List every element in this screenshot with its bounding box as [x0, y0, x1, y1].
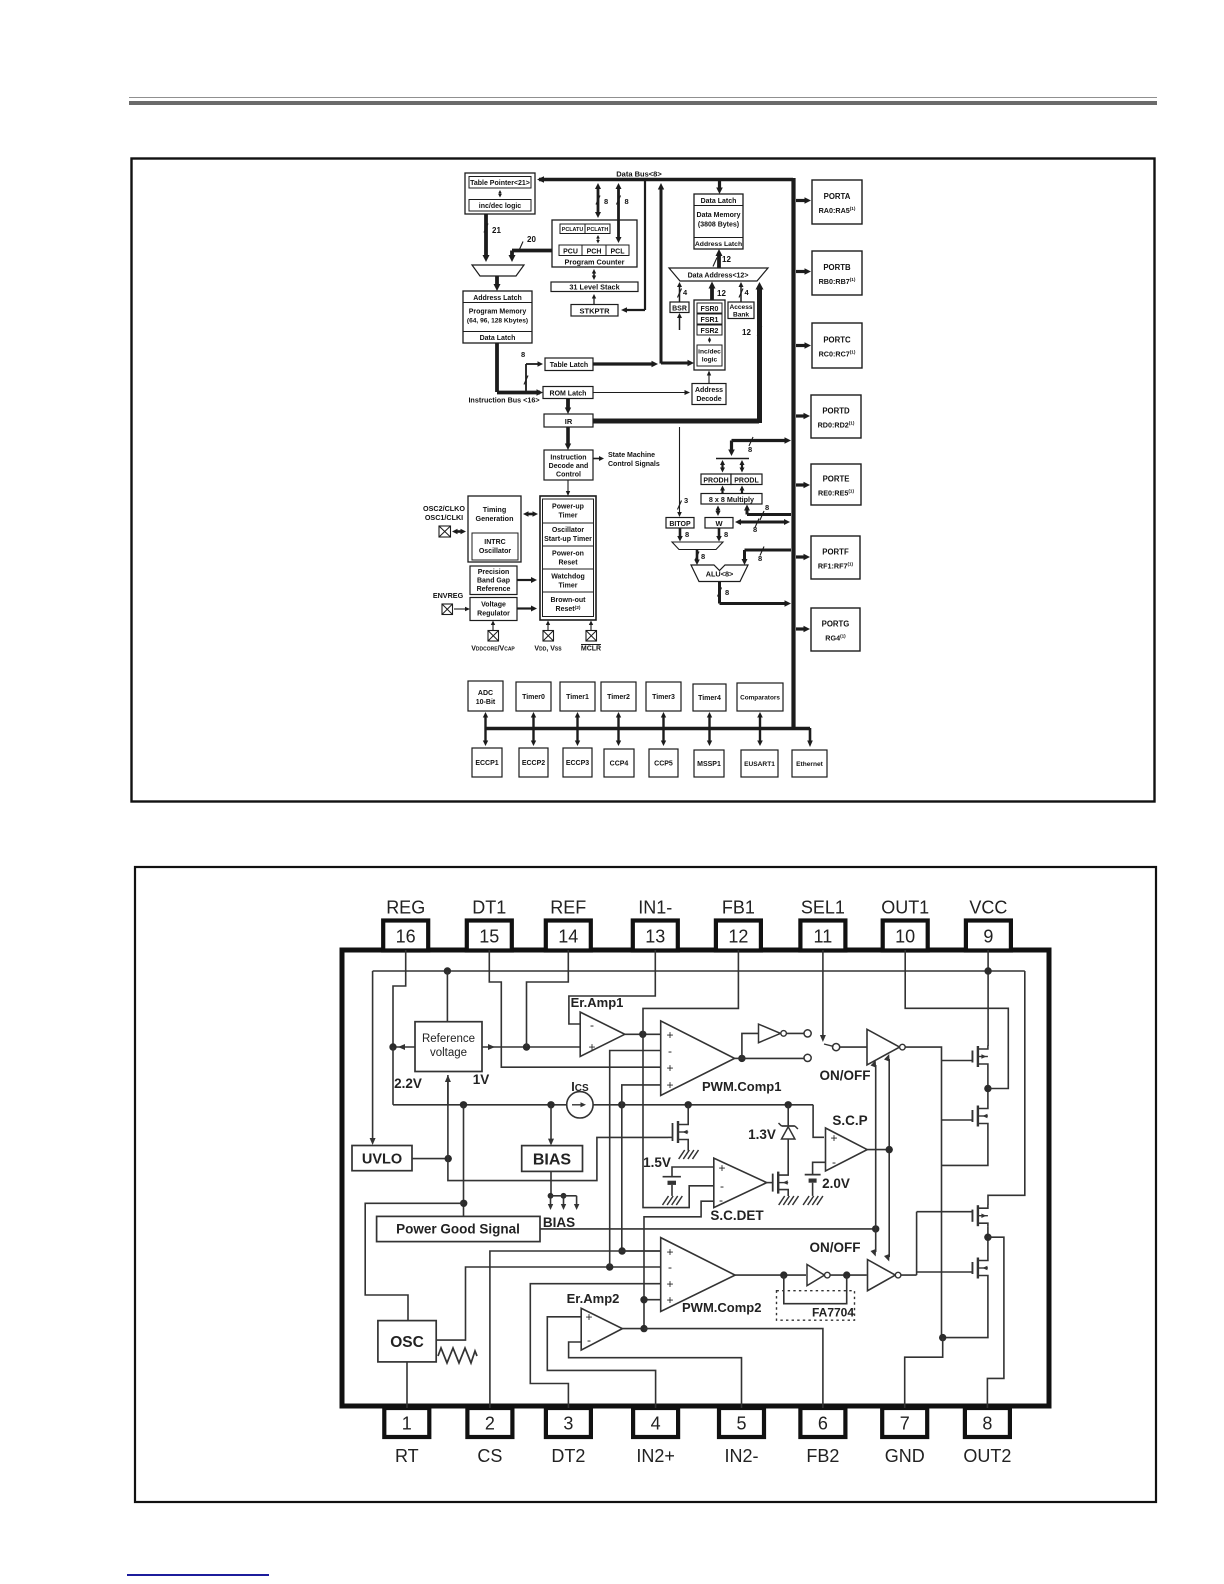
- wire data bus spine vertical: [791, 178, 795, 730]
- svg-text:PORTD: PORTD: [822, 407, 850, 416]
- svg-text:4: 4: [651, 1414, 661, 1434]
- svg-text:OSC: OSC: [390, 1334, 424, 1351]
- wire Comparators bus arrow: [757, 712, 763, 746]
- wire comp1 4th input: [622, 1085, 661, 1251]
- block Voltage Regulator: [470, 598, 517, 621]
- wire IR to instruction decode: [565, 427, 571, 450]
- block ECCP3: [563, 748, 592, 777]
- svg-text:Timing: Timing: [483, 505, 506, 514]
- svg-text:-: -: [719, 1193, 723, 1207]
- FA7704 dashed box: [777, 1291, 855, 1321]
- wire instruction bus: [497, 343, 543, 396]
- register BITOP: [666, 518, 694, 529]
- wire power good output: [540, 1225, 879, 1232]
- wire pmos to rail: [687, 1105, 689, 1121]
- comparator PWM.Comp2: [661, 1238, 762, 1315]
- svg-text:Program Counter: Program Counter: [564, 257, 624, 266]
- block 8x8 Multiply: [701, 494, 762, 505]
- wire driver1 output: [905, 1047, 941, 1338]
- transistor clamp NMOS: [773, 1162, 789, 1196]
- wire eramp1 output: [625, 1031, 661, 1038]
- pin 12 FB1: [716, 898, 761, 951]
- svg-text:IN2+: IN2+: [636, 1446, 675, 1466]
- port PORTB: [796, 251, 862, 295]
- svg-text:8: 8: [625, 197, 629, 206]
- wire M3 source to OUT2 node: [984, 1227, 991, 1257]
- inverter channel1: [759, 1024, 804, 1043]
- transistor bias PMOS: [668, 1121, 688, 1143]
- svg-text:Timer3: Timer3: [652, 694, 675, 701]
- buffer driver1: [867, 1029, 905, 1065]
- block Address Decode: [692, 384, 726, 405]
- svg-text:Instruction Bus <16>: Instruction Bus <16>: [468, 396, 539, 405]
- wire data bus to STKPTR: [621, 179, 645, 313]
- svg-text:+: +: [666, 1078, 673, 1092]
- wire BITOP to mux 8: [677, 528, 689, 542]
- svg-text:21: 21: [492, 226, 501, 235]
- svg-text:MCLR: MCLR: [581, 646, 601, 653]
- wire BSR to mux 4: [677, 282, 688, 302]
- wire pin2 CS net: [490, 1251, 661, 1408]
- svg-text:FB2: FB2: [806, 1446, 839, 1466]
- top rule thick line: [129, 101, 1157, 105]
- block MSSP1: [694, 750, 724, 777]
- transistor M1 high-side ch1: [942, 1046, 988, 1068]
- node State Machine Control Signals: [593, 452, 660, 468]
- wire rail to power good: [460, 1105, 467, 1217]
- svg-text:Timer4: Timer4: [698, 695, 721, 702]
- wire table latch output: [593, 361, 658, 367]
- svg-text:Reference: Reference: [477, 586, 511, 593]
- svg-text:-: -: [590, 1018, 594, 1032]
- svg-text:ECCP3: ECCP3: [566, 760, 589, 767]
- wire into BSR: [677, 313, 682, 330]
- wire vertical to data bus: [658, 183, 664, 364]
- wire SCP output: [867, 1146, 893, 1153]
- wire pin13 IN1- net: [569, 950, 655, 1024]
- wire Timer2 bus arrow: [616, 712, 621, 746]
- svg-text:UVLO: UVLO: [362, 1152, 402, 1168]
- register W: [705, 518, 733, 529]
- svg-text:1.5V: 1.5V: [643, 1155, 671, 1170]
- switch contacts SEL1: [804, 1030, 840, 1062]
- svg-text:Data Latch: Data Latch: [701, 198, 737, 205]
- block Program Memory: [463, 291, 532, 343]
- transistor M3 high-side ch2: [917, 1205, 988, 1227]
- wire W to multiply: [716, 506, 721, 517]
- svg-text:9: 9: [983, 927, 993, 947]
- svg-text:Power-up: Power-up: [552, 504, 584, 511]
- svg-text:-: -: [720, 1179, 724, 1193]
- block BIAS: [522, 1146, 583, 1172]
- buffer driver2: [868, 1260, 901, 1291]
- svg-text:FA7704: FA7704: [812, 1306, 854, 1320]
- svg-text:Data Bus<8>: Data Bus<8>: [616, 170, 662, 179]
- svg-text:Decode: Decode: [696, 396, 721, 403]
- register PRODH: [701, 474, 731, 485]
- node 1.5V label: [643, 1155, 671, 1170]
- svg-text:+: +: [718, 1161, 725, 1175]
- node MCLR label: [581, 645, 601, 653]
- wire refvolt left arrow: [389, 1043, 415, 1050]
- block CCP5: [649, 749, 678, 777]
- svg-text:+: +: [666, 1293, 673, 1307]
- wire comp1 output node: [735, 1033, 805, 1062]
- svg-text:11: 11: [814, 927, 833, 947]
- figure 2 frame: [135, 867, 1156, 1502]
- pin 15 DT1: [467, 898, 512, 951]
- wire GND pin net: [905, 1338, 943, 1408]
- svg-text:Address: Address: [695, 387, 723, 394]
- inverter channel2: [807, 1265, 867, 1286]
- svg-text:OUT1: OUT1: [881, 898, 929, 918]
- pin 11 SEL1: [800, 898, 845, 951]
- wire OUT2 net: [987, 1237, 1004, 1408]
- svg-text:8: 8: [765, 503, 769, 512]
- block Table Latch: [545, 358, 593, 371]
- svg-text:PORTE: PORTE: [823, 475, 850, 484]
- svg-text:2: 2: [485, 1414, 495, 1434]
- svg-text:IN2-: IN2-: [724, 1446, 758, 1466]
- svg-text:+: +: [666, 1277, 673, 1291]
- svg-text:PCLATH: PCLATH: [587, 227, 609, 233]
- wire regulator to brown-out: [517, 606, 537, 612]
- pin VDDCORE/VCAP crossing: [488, 621, 499, 642]
- wire refvolt top: [446, 971, 448, 1022]
- wire rail to UVLO: [370, 971, 376, 1145]
- wire Timer1 bus arrow: [575, 712, 580, 746]
- wire pin12 FB1 net: [643, 950, 738, 1208]
- block Reference voltage: [415, 1022, 482, 1072]
- junction ref output REF pin: [523, 1043, 530, 1050]
- svg-text:6: 6: [818, 1414, 828, 1434]
- pin VDD VSS crossing: [543, 621, 554, 642]
- svg-text:GND: GND: [885, 1446, 925, 1466]
- node BIAS small label: [543, 1215, 575, 1230]
- battery 1.5V: [663, 1177, 681, 1196]
- svg-text:ON/OFF: ON/OFF: [820, 1068, 871, 1083]
- wire ROM latch to address decode: [593, 390, 690, 395]
- svg-text:Comparators: Comparators: [740, 695, 780, 702]
- wire spine to ALU 8: [742, 547, 792, 566]
- node PROD bus bar: [716, 458, 749, 460]
- svg-text:Brown-out: Brown-out: [551, 597, 587, 604]
- top rule thin line: [129, 97, 1157, 98]
- svg-text:REF: REF: [550, 898, 586, 918]
- svg-text:OUT2: OUT2: [963, 1446, 1011, 1466]
- wire eramp2 plus IN2+: [547, 1317, 655, 1408]
- svg-text:Timer0: Timer0: [522, 694, 545, 701]
- node 2.2V label: [394, 1076, 422, 1091]
- block Ethernet: [792, 750, 827, 777]
- resistor RT timing: [438, 1348, 477, 1363]
- block Access Bank: [728, 302, 754, 319]
- pin 13 IN1-: [633, 898, 678, 951]
- block Timer0: [516, 682, 551, 711]
- svg-text:10: 10: [895, 927, 915, 947]
- block ECCP1: [472, 748, 502, 777]
- svg-text:-: -: [832, 1155, 836, 1169]
- svg-text:PCU: PCU: [563, 248, 578, 255]
- wire timing generation to timer stack: [523, 511, 538, 517]
- svg-text:FB1: FB1: [722, 898, 755, 918]
- block Timer2: [601, 682, 636, 711]
- svg-text:-: -: [668, 1044, 672, 1058]
- wire M1 source to OUT1 node: [984, 1068, 991, 1106]
- block EUSART1: [741, 750, 778, 777]
- svg-text:PORTC: PORTC: [823, 336, 851, 345]
- pin MCLR crossing: [586, 621, 597, 642]
- transistor M4 low-side ch2: [917, 1257, 988, 1279]
- svg-text:Control Signals: Control Signals: [608, 461, 660, 468]
- svg-text:Address Latch: Address Latch: [473, 295, 522, 302]
- svg-text:STKPTR: STKPTR: [580, 306, 611, 315]
- wire refvolt right output: [482, 1044, 580, 1050]
- svg-text:8: 8: [604, 197, 608, 206]
- svg-text:Data Latch: Data Latch: [480, 335, 516, 342]
- pin 9 VCC: [966, 898, 1011, 951]
- opamp Er.Amp1: [571, 995, 625, 1057]
- svg-text:OSC2/CLKO: OSC2/CLKO: [423, 504, 465, 513]
- svg-text:Precision: Precision: [478, 569, 510, 576]
- pin 8 OUT2: [963, 1408, 1011, 1466]
- block Program Counter: [552, 220, 637, 267]
- comparator S.C.P: [826, 1113, 868, 1171]
- block STKPTR: [571, 305, 618, 317]
- wire mux to program memory: [494, 276, 501, 291]
- wire pin9 VCC drop: [987, 950, 989, 1046]
- svg-text:Voltage: Voltage: [481, 602, 506, 609]
- wire pin15 DT1 net: [489, 950, 660, 1067]
- svg-text:PWM.Comp1: PWM.Comp1: [702, 1079, 781, 1094]
- svg-text:ON/OFF: ON/OFF: [810, 1240, 861, 1255]
- svg-text:inc/dec: inc/dec: [698, 349, 721, 356]
- block OSC: [378, 1321, 436, 1362]
- svg-text:8: 8: [758, 554, 762, 563]
- svg-text:CCP4: CCP4: [610, 761, 629, 768]
- mux ALU input: [672, 542, 723, 550]
- block CCP4: [604, 749, 634, 777]
- comparator S.C.DET: [710, 1158, 766, 1223]
- block Table Pointer: [465, 173, 535, 214]
- wire pin14 REF net: [527, 950, 569, 1047]
- svg-text:DT1: DT1: [472, 898, 506, 918]
- svg-text:8: 8: [521, 350, 525, 359]
- svg-text:IR: IR: [565, 417, 573, 426]
- pin 3 DT2: [546, 1408, 591, 1466]
- wire access bank to mux 4: [739, 282, 750, 302]
- port PORTE: [796, 464, 861, 505]
- wire decode to timer stack: [566, 480, 570, 496]
- node VDD VSS label: [534, 646, 562, 653]
- block Precision Band Gap Reference: [470, 566, 517, 595]
- svg-text:13: 13: [645, 927, 665, 947]
- svg-text:7: 7: [900, 1414, 910, 1434]
- wire OSC to pin1: [406, 1362, 408, 1408]
- svg-text:8 x 8 Multiply: 8 x 8 Multiply: [709, 495, 754, 504]
- junction ramp to comp1: [606, 1263, 613, 1270]
- block Timing Generation: [468, 496, 521, 562]
- comparator PWM.Comp1: [661, 1021, 782, 1096]
- pin 7 GND: [882, 1408, 927, 1466]
- svg-text:1V: 1V: [473, 1072, 490, 1087]
- wire bar to PRODH: [720, 460, 725, 473]
- svg-text:Reference: Reference: [422, 1033, 475, 1045]
- wire IR bus 12 to data address mux: [593, 282, 764, 423]
- wire data bus to data latch: [716, 181, 723, 194]
- ground clamp: [779, 1196, 799, 1205]
- wire IR to BITOP 3: [677, 427, 688, 517]
- IC body: [342, 950, 1049, 1406]
- wire spine to multiply 8: [744, 503, 791, 520]
- wire table pointer bus 21: [483, 214, 502, 262]
- wire OSC ramp output: [436, 1267, 661, 1340]
- svg-text:voltage: voltage: [430, 1047, 467, 1059]
- wire instruction bus to table latch 8: [521, 350, 543, 392]
- wire PC output bus 20: [509, 235, 553, 262]
- svg-text:Control: Control: [556, 472, 581, 479]
- svg-text:15: 15: [479, 927, 499, 947]
- svg-text:Data Memory: Data Memory: [697, 212, 741, 219]
- block Data Memory: [694, 194, 743, 249]
- svg-text:Power Good Signal: Power Good Signal: [396, 1222, 520, 1237]
- svg-text:12: 12: [728, 927, 748, 947]
- pin 2 CS: [467, 1408, 512, 1466]
- current source Ics: [567, 1080, 593, 1118]
- node 1V label: [473, 1072, 490, 1087]
- svg-text:3: 3: [684, 496, 688, 505]
- wire W spine double arrow 8: [735, 519, 790, 535]
- svg-text:FSR0: FSR0: [701, 306, 719, 313]
- svg-text:ADC: ADC: [478, 690, 493, 697]
- wire M4 source to ground: [939, 1279, 988, 1341]
- pin 16 REG: [383, 898, 428, 951]
- svg-text:+: +: [588, 1040, 595, 1054]
- wire refvolt adjust net: [448, 1075, 668, 1181]
- svg-text:CCP5: CCP5: [654, 761, 673, 768]
- wire ramp to PWM comp1: [610, 1051, 661, 1268]
- svg-text:PRODH: PRODH: [703, 477, 728, 484]
- wire data bus horizontal: [537, 176, 793, 183]
- svg-text:ROM Latch: ROM Latch: [550, 391, 587, 398]
- svg-text:12: 12: [742, 328, 751, 337]
- svg-text:PRODL: PRODL: [734, 477, 759, 484]
- wire Ethernet drop: [807, 728, 813, 747]
- svg-text:Band Gap: Band Gap: [477, 578, 510, 585]
- wire ADC 10-Bit bus arrow: [483, 712, 488, 746]
- svg-text:S.C.DET: S.C.DET: [710, 1208, 764, 1223]
- svg-text:PORTF: PORTF: [822, 548, 849, 557]
- pin 6 FB2: [800, 1408, 845, 1466]
- wire refvolt bottom bias: [445, 1075, 451, 1105]
- svg-text:Bank: Bank: [733, 312, 749, 319]
- transistor M2 low-side ch1: [942, 1105, 988, 1127]
- svg-text:Er.Amp2: Er.Amp2: [567, 1291, 620, 1306]
- wire data bus to PCL 8: [616, 183, 629, 243]
- pin 5 IN2-: [719, 1408, 764, 1466]
- wire VCC top rail: [373, 970, 1025, 972]
- svg-text:SEL1: SEL1: [801, 898, 845, 918]
- svg-text:ICS: ICS: [571, 1080, 589, 1094]
- wire UVLO output: [412, 1155, 452, 1162]
- svg-text:+: +: [585, 1310, 592, 1324]
- wire BIAS distribution: [548, 1171, 580, 1210]
- bottom blue rule: [127, 1574, 269, 1576]
- wire to FSR bank: [661, 360, 694, 366]
- svg-text:Address Latch: Address Latch: [695, 241, 742, 248]
- svg-text:-: -: [668, 1260, 672, 1274]
- svg-text:ENVREG: ENVREG: [433, 591, 464, 600]
- svg-text:DT2: DT2: [551, 1446, 585, 1466]
- wire SCDET third input: [644, 1201, 714, 1328]
- node ON/OFF label 1: [820, 1068, 871, 1083]
- svg-text:W: W: [715, 519, 723, 528]
- svg-text:1.3V: 1.3V: [748, 1127, 776, 1142]
- svg-text:Start-up Timer: Start-up Timer: [544, 536, 592, 543]
- svg-text:RT: RT: [395, 1446, 419, 1466]
- svg-text:12: 12: [717, 289, 726, 298]
- pin ENVREG crossing: [442, 604, 453, 615]
- svg-text:FSR2: FSR2: [701, 328, 719, 335]
- junction bias rail dots: [460, 1101, 792, 1108]
- svg-text:8: 8: [982, 1414, 992, 1434]
- svg-text:(64, 96, 128 Kbytes): (64, 96, 128 Kbytes): [467, 318, 528, 325]
- svg-text:Data Address<12>: Data Address<12>: [688, 273, 749, 280]
- wire comp2 4th input: [640, 1296, 660, 1303]
- svg-text:31 Level Stack: 31 Level Stack: [569, 283, 620, 292]
- port PORTA: [796, 180, 862, 224]
- svg-text:REG: REG: [386, 898, 425, 918]
- block ECCP2: [519, 748, 548, 777]
- svg-text:Ethernet: Ethernet: [796, 761, 824, 768]
- opamp Er.Amp2: [567, 1291, 623, 1350]
- mux Data Address: [669, 268, 768, 281]
- node Instruction Bus label: [468, 396, 539, 405]
- svg-text:Oscillator: Oscillator: [552, 527, 585, 534]
- svg-text:BITOP: BITOP: [669, 521, 691, 528]
- svg-text:Er.Amp1: Er.Amp1: [571, 995, 624, 1010]
- node ON/OFF label 2: [810, 1240, 861, 1255]
- svg-text:Watchdog: Watchdog: [551, 574, 585, 581]
- block Timer3: [646, 682, 681, 711]
- wire band gap to watchdog: [517, 577, 537, 583]
- wire power good to OSC: [365, 1203, 464, 1320]
- wire ROM latch to IR: [565, 399, 571, 415]
- wire pin11 SEL1 net: [820, 950, 826, 1042]
- svg-text:BSR: BSR: [672, 305, 687, 312]
- ground 2.0V: [803, 1196, 823, 1205]
- svg-text:BIAS: BIAS: [543, 1215, 575, 1230]
- node 2.0V label: [822, 1176, 850, 1191]
- ground 1.5V: [663, 1196, 683, 1205]
- figure 1 frame: [132, 159, 1155, 802]
- register PRODL: [731, 474, 762, 485]
- pin 1 RT: [384, 1408, 429, 1466]
- svg-text:MSSP1: MSSP1: [697, 761, 721, 768]
- FA7704 bypass link: [784, 1275, 847, 1304]
- wire rail right drop: [988, 971, 1025, 1205]
- svg-text:IN1-: IN1-: [638, 898, 672, 918]
- wire data address to address latch 12: [713, 249, 731, 268]
- wire OUT1 net: [905, 950, 1008, 1089]
- block FSR bank: [694, 300, 725, 370]
- wire eramp2 minus IN2-: [569, 1342, 742, 1408]
- svg-text:2.0V: 2.0V: [822, 1176, 850, 1191]
- svg-text:VDD, VSS: VDD, VSS: [534, 646, 562, 653]
- svg-text:1: 1: [402, 1414, 412, 1434]
- svg-text:PORTA: PORTA: [824, 192, 851, 201]
- node ENVREG label: [433, 591, 464, 600]
